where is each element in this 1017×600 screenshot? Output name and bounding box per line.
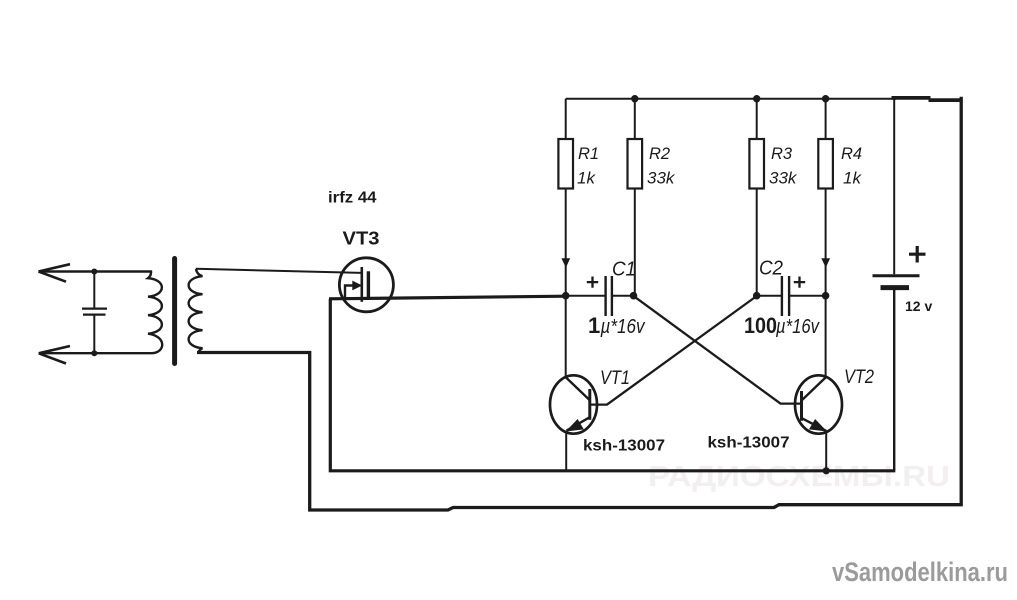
svg-text:µ*16v: µ*16v xyxy=(775,316,820,338)
wire: top supply rail y=99 xyxy=(566,98,896,100)
resistor R1 xyxy=(558,99,573,293)
current tick on R4 wire xyxy=(822,259,829,267)
svg-text:C1: C1 xyxy=(612,259,636,281)
svg-text:µ*16v: µ*16v xyxy=(600,316,646,338)
svg-text:C2: C2 xyxy=(759,258,783,280)
transistor VT2 xyxy=(795,296,842,472)
resistor R4 xyxy=(818,99,833,296)
junction dot node C1/R2 xyxy=(630,292,638,300)
transformer secondary winding xyxy=(189,269,203,353)
svg-text:R1: R1 xyxy=(578,145,599,163)
junction dot node R3/C2 xyxy=(753,292,761,300)
resistor R2 xyxy=(628,99,643,296)
antenna arrow bottom xyxy=(39,346,70,364)
svg-text:1k: 1k xyxy=(577,169,596,188)
svg-text:33k: 33k xyxy=(647,169,676,188)
antenna arrow top xyxy=(39,264,71,282)
svg-text:ksh-13007: ksh-13007 xyxy=(583,438,665,455)
svg-text:1: 1 xyxy=(588,313,600,338)
svg-text:irfz 44: irfz 44 xyxy=(328,190,377,207)
junction dot node C2/R4 xyxy=(822,292,830,300)
wire: thick top-right segment A xyxy=(892,96,931,100)
svg-text:VT1: VT1 xyxy=(600,368,630,389)
junction dot top rail R3 xyxy=(753,95,760,102)
svg-text:1k: 1k xyxy=(843,169,862,188)
wire: inner ground rail from VT3 source down and across xyxy=(330,299,895,471)
svg-text:R2: R2 xyxy=(649,145,670,163)
capacitor C1 xyxy=(566,276,634,316)
svg-text:33k: 33k xyxy=(769,169,798,188)
svg-text:R3: R3 xyxy=(771,145,793,163)
resistor R3 xyxy=(749,99,764,296)
plus sign of battery xyxy=(909,246,926,263)
current tick on R1 wire xyxy=(562,259,569,267)
wire: VT3 thick drain wire to R1/C1 node xyxy=(329,296,566,299)
svg-text:100: 100 xyxy=(744,313,777,338)
wire: cross coupling C1 right node to VT2 base xyxy=(634,296,802,404)
svg-text:vSamodelkina.ru: vSamodelkina.ru xyxy=(832,557,1008,587)
junction dot VT2 emitter on ground rail xyxy=(823,467,830,474)
junction dot node R1/C1 xyxy=(562,292,570,300)
svg-text:ksh-13007: ksh-13007 xyxy=(708,435,790,452)
junction dot antenna top xyxy=(91,269,97,275)
junction dot top rail R2 xyxy=(631,95,638,102)
svg-text:VT3: VT3 xyxy=(343,229,380,249)
plus sign of C1 xyxy=(587,277,598,288)
MOSFET VT3 xyxy=(196,258,393,312)
svg-text:12 v: 12 v xyxy=(905,298,932,314)
wire: thick top-right segment B xyxy=(929,98,963,102)
capacitor C2 xyxy=(757,276,826,316)
plus sign of C2 xyxy=(794,277,805,288)
battery 12V xyxy=(873,99,920,471)
svg-text:РАДИОСХЕМЫ.RU: РАДИОСХЕМЫ.RU xyxy=(648,461,950,493)
junction dot top rail R4 xyxy=(822,95,829,102)
capacitor on antenna (left) xyxy=(82,272,107,354)
svg-text:R4: R4 xyxy=(841,145,862,163)
transistor VT1 xyxy=(550,293,597,472)
transformer primary winding xyxy=(39,272,162,354)
wire: outer loop (secondary bottom, left down, outer bottom, right up) xyxy=(197,97,961,510)
junction dot antenna bottom xyxy=(91,350,97,356)
wire: cross coupling C2 left node to VT1 base xyxy=(590,296,757,405)
svg-text:VT2: VT2 xyxy=(844,367,874,388)
transformer core xyxy=(172,259,177,364)
